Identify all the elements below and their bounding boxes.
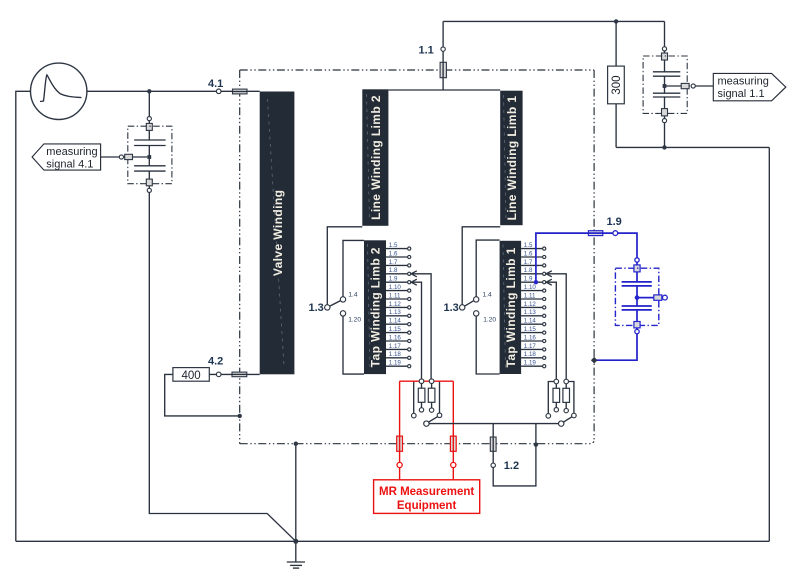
node: junction on tank bottom wall above ground xyxy=(294,442,298,446)
svg-text:1.5: 1.5 xyxy=(524,242,533,249)
line winding limb 2 xyxy=(362,89,388,226)
node: junction of 400 loop on tank left wall xyxy=(238,414,242,418)
node: ground bus junction xyxy=(293,539,298,544)
tap 1.12 of tap winding limb 2 (lead, terminal, label) xyxy=(386,301,411,309)
tap 1.10 of tap winding limb 2 (lead, terminal, label) xyxy=(386,284,411,292)
tap 1.13 of tap winding limb 1 (lead, terminal, label) xyxy=(521,309,546,317)
svg-text:signal 4.1: signal 4.1 xyxy=(46,159,93,171)
svg-text:1.2: 1.2 xyxy=(504,460,519,472)
svg-text:1.17: 1.17 xyxy=(524,343,537,350)
impulse generator G1 xyxy=(31,63,87,119)
svg-text:1.17: 1.17 xyxy=(389,343,402,350)
svg-text:1.12: 1.12 xyxy=(389,301,402,308)
svg-text:4.1: 4.1 xyxy=(208,78,223,90)
tap 1.18 of tap winding limb 1 (lead, terminal, label) xyxy=(521,351,546,359)
node: junction at top of resistor 300 xyxy=(614,19,618,23)
wire: run from 300 bottom to right-side drop xyxy=(616,146,769,148)
svg-text:400: 400 xyxy=(182,370,201,382)
wire: divider 4.1 tap to terminal xyxy=(124,156,148,158)
tap selector switch 1.3 of limb 1 xyxy=(444,227,501,374)
tap-off arrow at tap 1.9 limb 1 to measurement resistor xyxy=(546,279,556,381)
node: junction of blue branch with tank wall xyxy=(591,357,598,364)
svg-text:1.15: 1.15 xyxy=(524,326,537,333)
tap 1.5 of tap winding limb 1 (lead, terminal, label) xyxy=(521,242,546,250)
svg-text:1.15: 1.15 xyxy=(389,326,402,333)
tap 1.19 of tap winding limb 1 (lead, terminal, label) xyxy=(521,360,546,368)
tap 1.15 of tap winding limb 2 (lead, terminal, label) xyxy=(386,326,411,334)
svg-text:1.3: 1.3 xyxy=(444,302,459,314)
terminal 1.9 xyxy=(613,231,618,236)
svg-text:1.11: 1.11 xyxy=(389,292,401,299)
bushing on tank bottom (left red lead) xyxy=(397,436,403,451)
svg-text:1.8: 1.8 xyxy=(389,267,398,274)
svg-text:1.13: 1.13 xyxy=(389,309,402,316)
bushing 4.1 on tank wall xyxy=(233,89,248,94)
capacitor C-high of blue divider xyxy=(622,281,652,283)
wire: divider 4.1 bottom down to ground bus with diagonal xyxy=(149,193,295,542)
wire: 1.2 branch through tank bottom with loop back to tank xyxy=(493,424,536,486)
tap 1.17 of tap winding limb 1 (lead, terminal, label) xyxy=(521,343,546,351)
tap 1.14 of tap winding limb 1 (lead, terminal, label) xyxy=(521,318,546,326)
wire: 1.1 riser into tank xyxy=(442,21,444,90)
wire: top run from 1.1 riser to right divider xyxy=(443,20,664,22)
svg-text:1.18: 1.18 xyxy=(389,351,402,358)
terminal 1.1 xyxy=(441,47,445,51)
svg-text:1.7: 1.7 xyxy=(524,259,533,266)
svg-text:4.2: 4.2 xyxy=(208,356,223,368)
svg-text:1.19: 1.19 xyxy=(389,360,402,367)
node: junction of measuring divider 4.1 tap on generator wire xyxy=(147,89,151,93)
tap winding limb 1 xyxy=(500,241,521,374)
wire: generator left side down to bottom bus xyxy=(16,91,31,541)
transformer tank boundary (dash-dot) xyxy=(240,70,594,444)
tap selector switch 1.3 of limb 2 xyxy=(309,227,365,374)
svg-text:Line Winding Limb 1: Line Winding Limb 1 xyxy=(505,96,519,221)
tap 1.5 of tap winding limb 2 (lead, terminal, label) xyxy=(386,242,411,250)
svg-text:1.14: 1.14 xyxy=(524,318,537,325)
ground xyxy=(287,562,305,568)
svg-text:measuring: measuring xyxy=(46,146,97,158)
svg-text:1.6: 1.6 xyxy=(389,250,398,257)
bushing on tank bottom (right red lead) xyxy=(450,436,456,451)
wire: common return between both resistor selectors xyxy=(429,423,558,425)
capacitor C-low of divider 4.1 xyxy=(134,165,166,167)
capacitor C-high of divider 1.1 xyxy=(653,71,680,73)
svg-text:Tap Winding Limb 2: Tap Winding Limb 2 xyxy=(369,247,383,367)
wire: blue divider tap to terminal xyxy=(637,297,661,299)
svg-text:1.10: 1.10 xyxy=(389,284,402,291)
svg-text:1.4: 1.4 xyxy=(348,292,357,299)
svg-text:1.16: 1.16 xyxy=(389,334,402,341)
blue 1.9 measuring branch wire from tap 1.9 limb1 out through tank xyxy=(536,233,637,282)
tap 1.7 of tap winding limb 1 (lead, terminal, label) xyxy=(521,259,546,267)
node: blue junction on tap 1.9 lead xyxy=(534,280,538,284)
tap 1.6 of tap winding limb 2 (lead, terminal, label) xyxy=(386,250,411,258)
svg-text:1.18: 1.18 xyxy=(524,351,537,358)
tap 1.11 of tap winding limb 1 (lead, terminal, label) xyxy=(521,292,546,300)
tap 1.8 of tap winding limb 1 (lead, terminal, label) xyxy=(521,267,546,275)
wire: bottom ground bus xyxy=(16,540,770,542)
svg-text:1.13: 1.13 xyxy=(524,309,537,316)
svg-text:1.20: 1.20 xyxy=(348,316,361,323)
svg-text:1.1: 1.1 xyxy=(419,45,434,57)
tap 1.16 of tap winding limb 1 (lead, terminal, label) xyxy=(521,334,546,342)
wire: right side drop from 300/divider run to bottom bus xyxy=(768,147,770,541)
svg-text:1.8: 1.8 xyxy=(524,267,533,274)
tap 1.14 of tap winding limb 2 (lead, terminal, label) xyxy=(386,318,411,326)
tap 1.11 of tap winding limb 2 (lead, terminal, label) xyxy=(386,292,411,300)
terminal on left red lead xyxy=(397,462,402,467)
capacitor C-high of divider 4.1 xyxy=(134,139,166,141)
wire: generator output to valve winding (through terminal 4.1 and bushing) xyxy=(87,90,260,92)
tap 1.7 of tap winding limb 2 (lead, terminal, label) xyxy=(386,259,411,267)
tap 1.12 of tap winding limb 1 (lead, terminal, label) xyxy=(521,301,546,309)
tap 1.16 of tap winding limb 2 (lead, terminal, label) xyxy=(386,334,411,342)
svg-text:signal 1.1: signal 1.1 xyxy=(718,88,765,100)
svg-text:1.7: 1.7 xyxy=(389,259,398,266)
svg-text:Line Winding Limb 2: Line Winding Limb 2 xyxy=(369,95,383,220)
svg-text:1.16: 1.16 xyxy=(524,334,537,341)
tap-off arrow at tap 1.8 limb 2 to measurement resistor xyxy=(411,271,431,381)
wire: tank to ground electrode xyxy=(295,444,297,562)
svg-text:1.11: 1.11 xyxy=(524,292,536,299)
red wire: taps 1.8/1.9 limb2 to MR measurement equipment xyxy=(400,381,454,480)
tap 1.17 of tap winding limb 2 (lead, terminal, label) xyxy=(386,343,411,351)
svg-text:1.3: 1.3 xyxy=(309,302,324,314)
svg-text:Equipment: Equipment xyxy=(397,500,457,512)
measuring divider 4.1 (capacitive divider in dash-dot box) xyxy=(101,93,172,192)
bushing 1.1 on tank top xyxy=(440,62,446,77)
tap 1.10 of tap winding limb 1 (lead, terminal, label) xyxy=(521,284,546,292)
terminals and selector of limb1 measurement resistors xyxy=(546,379,576,426)
blue wire: divider bottom to tank wall junction xyxy=(594,334,637,360)
svg-text:1.9: 1.9 xyxy=(524,276,533,283)
terminal 4.1 xyxy=(216,89,221,94)
svg-text:1.6: 1.6 xyxy=(524,250,533,257)
tap 1.15 of tap winding limb 1 (lead, terminal, label) xyxy=(521,326,546,334)
tap 1.19 of tap winding limb 2 (lead, terminal, label) xyxy=(386,360,411,368)
svg-text:measuring: measuring xyxy=(718,76,769,88)
MR measurement equipment box xyxy=(374,480,480,514)
svg-text:1.12: 1.12 xyxy=(524,301,537,308)
node: junction of 1.2 loop on tank bottom wall xyxy=(534,442,538,446)
wire: divider 1.1 tap to terminal xyxy=(666,85,690,87)
svg-text:1.14: 1.14 xyxy=(389,318,402,325)
node: junction of divider 1.1 bottom on that run xyxy=(662,145,666,149)
svg-text:300: 300 xyxy=(611,75,623,94)
resistor 300 with leads xyxy=(608,21,625,147)
tap 1.6 of tap winding limb 1 (lead, terminal, label) xyxy=(521,250,546,258)
svg-text:1.20: 1.20 xyxy=(483,316,496,323)
terminal 1.2 xyxy=(491,463,495,467)
wire: line winding limb2 top to line winding limb1 top xyxy=(388,89,500,91)
bushing 1.9 on tank right wall xyxy=(588,231,602,236)
tap-off arrow at tap 1.9 limb 2 to measurement resistor xyxy=(411,279,421,381)
resistor 400 with terminal 4.2 and bushing xyxy=(165,356,260,416)
tap 1.18 of tap winding limb 2 (lead, terminal, label) xyxy=(386,351,411,359)
blue measuring divider at 1.9 (dash-dot box) xyxy=(615,258,667,334)
svg-text:Tap Winding Limb 1: Tap Winding Limb 1 xyxy=(504,247,518,367)
valve winding xyxy=(260,92,295,375)
svg-text:MR Measurement: MR Measurement xyxy=(379,486,474,498)
node: divider 1.1 mid tap xyxy=(663,84,667,88)
measurement resistor pair below tap winding limb 1 xyxy=(548,382,574,414)
measuring signal 1.1 tag xyxy=(713,73,786,100)
bushing 1.2 on tank bottom xyxy=(490,437,496,451)
tap 1.9 of tap winding limb 2 (lead, terminal, label) xyxy=(386,276,411,284)
node: blue divider mid tap xyxy=(635,295,640,300)
svg-text:1.4: 1.4 xyxy=(483,292,492,299)
svg-text:1.5: 1.5 xyxy=(389,242,398,249)
line winding limb 1 xyxy=(500,91,522,226)
capacitor C-low of blue divider xyxy=(622,305,652,307)
terminals and selector of limb2 measurement resistors xyxy=(412,379,442,426)
measurement resistor pair below tap winding limb 2 xyxy=(414,381,440,413)
measuring divider 1.1 (capacitive divider in dash-dot box) xyxy=(643,21,713,147)
svg-text:1.10: 1.10 xyxy=(524,284,537,291)
measuring signal 4.1 tag xyxy=(32,144,101,171)
svg-text:Valve Winding: Valve Winding xyxy=(271,190,285,276)
svg-text:1.9: 1.9 xyxy=(607,216,622,228)
tap 1.13 of tap winding limb 2 (lead, terminal, label) xyxy=(386,309,411,317)
tap-off arrow at tap 1.8 limb 1 to measurement resistor xyxy=(546,271,566,382)
tap 1.9 of tap winding limb 1 (lead, terminal, label) xyxy=(521,276,546,284)
terminal on right red lead xyxy=(451,462,456,467)
capacitor C-low of divider 1.1 xyxy=(653,92,680,94)
tap 1.8 of tap winding limb 2 (lead, terminal, label) xyxy=(386,267,411,275)
svg-text:1.19: 1.19 xyxy=(524,360,537,367)
tap winding limb 2 xyxy=(364,240,386,374)
svg-text:1.9: 1.9 xyxy=(389,276,398,283)
node: divider 4.1 mid tap xyxy=(147,155,151,159)
